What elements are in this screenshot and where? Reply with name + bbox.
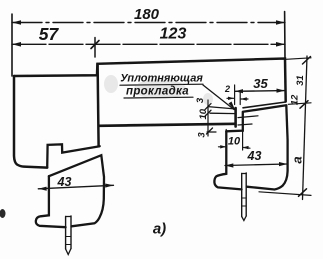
svg-text:2: 2: [224, 84, 230, 94]
svg-text:180: 180: [134, 6, 160, 23]
svg-text:10: 10: [198, 108, 209, 119]
svg-text:57: 57: [39, 24, 60, 44]
svg-text:31: 31: [295, 75, 306, 86]
svg-text:43: 43: [57, 175, 72, 189]
svg-text:а: а: [290, 156, 305, 163]
svg-text:35: 35: [253, 76, 268, 91]
svg-text:10: 10: [228, 136, 241, 148]
svg-text:3: 3: [197, 132, 208, 138]
svg-text:3: 3: [195, 97, 206, 103]
svg-text:прокладка: прокладка: [126, 86, 189, 98]
svg-text:Уплотняющая: Уплотняющая: [120, 73, 203, 85]
svg-text:123: 123: [160, 26, 187, 43]
svg-text:а): а): [153, 221, 166, 238]
svg-text:12: 12: [290, 94, 301, 105]
svg-text:43: 43: [247, 149, 262, 163]
